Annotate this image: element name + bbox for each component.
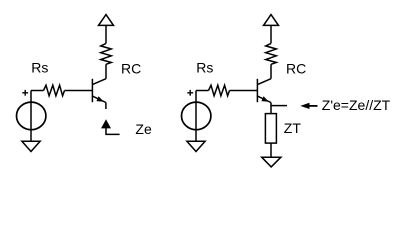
svg-text:Ze: Ze <box>135 121 152 137</box>
svg-text:Z'e=Ze//ZT: Z'e=Ze//ZT <box>322 97 391 113</box>
svg-text:ZT: ZT <box>284 120 302 136</box>
